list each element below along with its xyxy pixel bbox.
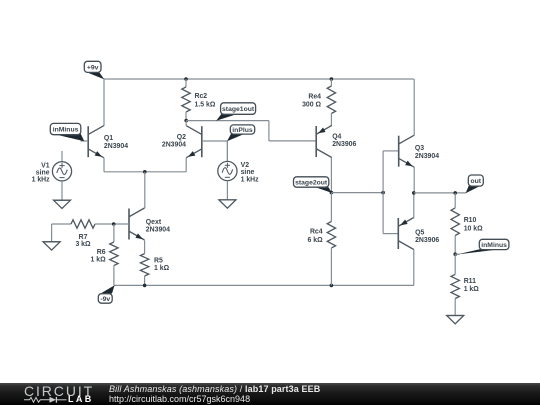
footer attribution text xyxy=(109,385,320,395)
flag inPlus xyxy=(227,125,255,141)
svg-text:Q2: Q2 xyxy=(177,134,186,141)
transistor Q1 xyxy=(88,126,104,158)
svg-text:stage2out: stage2out xyxy=(295,180,328,187)
resistor R6 xyxy=(110,224,118,285)
wire Q1 collector riser xyxy=(103,79,105,126)
footer bar xyxy=(0,383,540,405)
wire inMinus stub xyxy=(455,253,459,255)
resistor R11 xyxy=(451,254,459,315)
svg-text:1 kΩ: 1 kΩ xyxy=(154,265,170,272)
wire Q3 emitter drop xyxy=(413,167,415,193)
svg-text:6 kΩ: 6 kΩ xyxy=(307,237,323,244)
node R10/R11 junction xyxy=(453,252,457,256)
wire Q2 collector lead xyxy=(185,121,187,127)
wire Q5 emitter riser xyxy=(413,193,415,218)
svg-text:inMinus: inMinus xyxy=(481,242,507,249)
svg-text:2N3904: 2N3904 xyxy=(104,143,128,150)
CircuitLab logo xyxy=(24,385,94,397)
resistor R10 xyxy=(451,193,459,254)
label Q5 xyxy=(415,230,439,245)
flag stage2out xyxy=(294,177,332,193)
wire Q5 collector drop xyxy=(413,250,415,286)
label Re4 value xyxy=(302,93,321,108)
svg-text:inPlus: inPlus xyxy=(232,127,253,134)
ground below V1 xyxy=(54,200,71,208)
svg-text:300 Ω: 300 Ω xyxy=(302,102,321,109)
svg-text:Rc4: Rc4 xyxy=(310,229,323,236)
voltage source V2 xyxy=(218,141,237,200)
label Q1 xyxy=(104,135,128,150)
node emitter tail junction xyxy=(143,170,147,174)
label Rc2 value xyxy=(195,93,216,109)
wire Q1 emitter to tail xyxy=(104,158,145,172)
ground below R11 xyxy=(447,316,464,324)
svg-text:Q1: Q1 xyxy=(104,135,113,142)
svg-text:Q4: Q4 xyxy=(332,134,341,141)
logo wire glyph xyxy=(23,395,69,405)
svg-text:2N3906: 2N3906 xyxy=(415,237,439,244)
flag +9v xyxy=(84,61,104,79)
svg-text:1.5 kΩ: 1.5 kΩ xyxy=(195,101,216,108)
wire Q4 collector to stage2out xyxy=(330,158,332,193)
wire stage2out to output bases xyxy=(331,192,383,194)
node Rc4/rail junction xyxy=(330,284,334,288)
wire R7 left drop xyxy=(51,224,53,242)
svg-text:R6: R6 xyxy=(97,249,106,256)
transistor Qext xyxy=(129,208,145,240)
resistor Re4 xyxy=(327,79,335,126)
svg-text:R5: R5 xyxy=(154,258,163,265)
label R7 value xyxy=(75,234,91,248)
svg-text:+9v: +9v xyxy=(87,64,99,71)
resistor R5 xyxy=(140,240,148,285)
node Rc2/Q2-collector/stage1out junction xyxy=(184,119,188,123)
node R5/rail junction xyxy=(143,284,147,288)
svg-text:R10: R10 xyxy=(464,217,477,224)
node top-rail/Re4 junction xyxy=(330,77,334,81)
flag inMinus (input) xyxy=(50,123,84,141)
label Rc4 value xyxy=(307,229,323,244)
svg-text:2N3904: 2N3904 xyxy=(415,153,439,160)
flag -9v xyxy=(98,285,114,303)
label Q4 xyxy=(332,134,356,149)
resistor Rc4 xyxy=(327,193,335,286)
svg-text:1 kHz: 1 kHz xyxy=(32,176,51,183)
voltage source V1 xyxy=(52,151,71,200)
svg-text:Re4: Re4 xyxy=(308,93,321,100)
svg-text:3 kΩ: 3 kΩ xyxy=(75,241,91,248)
wire Q2 base to inPlus corner xyxy=(202,141,228,161)
svg-text:inMinus: inMinus xyxy=(53,127,79,134)
transistor Q4 xyxy=(316,126,332,158)
label R10 value xyxy=(464,217,483,233)
wire Q2 emitter to tail xyxy=(145,158,186,172)
svg-text:V2: V2 xyxy=(241,162,250,169)
flag stage1out xyxy=(216,103,255,121)
wire out run xyxy=(414,192,466,194)
transistor Q2 xyxy=(186,126,202,158)
svg-text:Q5: Q5 xyxy=(415,230,424,237)
flag inMinus (feedback) xyxy=(457,239,509,254)
label Q3 xyxy=(415,145,439,160)
label R5 value xyxy=(154,258,170,273)
wire stage1out run xyxy=(186,121,316,141)
node R10 tap junction xyxy=(453,191,457,195)
wire Q3/Q5 base line xyxy=(383,151,399,234)
svg-text:sine: sine xyxy=(241,169,255,176)
label R6 value xyxy=(90,249,106,264)
wire Q1 base stub xyxy=(81,140,89,142)
svg-text:Q3: Q3 xyxy=(415,145,424,152)
svg-text:Rc2: Rc2 xyxy=(195,93,208,100)
node Qext base junction xyxy=(112,222,116,226)
label V2 xyxy=(241,162,260,184)
transistor Q5 xyxy=(398,218,414,250)
wire tail to Qext collector xyxy=(144,172,146,208)
resistor Rc2 xyxy=(182,79,190,121)
svg-text:Qext: Qext xyxy=(146,219,162,226)
svg-text:2N3904: 2N3904 xyxy=(162,142,186,149)
svg-text:-9v: -9v xyxy=(100,296,110,303)
svg-text:V1: V1 xyxy=(41,162,50,169)
node emitters/out junction xyxy=(412,191,416,195)
label Q2 xyxy=(162,134,186,149)
node top-rail/Rc2 junction xyxy=(184,77,188,81)
svg-text:stage1out: stage1out xyxy=(222,106,255,113)
resistor R7 xyxy=(52,220,129,228)
label V1 xyxy=(32,162,51,183)
node base-line junction xyxy=(381,191,385,195)
wire -9v bottom rail xyxy=(114,284,414,286)
svg-text:2N3906: 2N3906 xyxy=(332,141,356,148)
svg-text:10 kΩ: 10 kΩ xyxy=(464,226,483,233)
svg-text:2N3904: 2N3904 xyxy=(146,226,170,233)
svg-text:R11: R11 xyxy=(464,278,476,285)
svg-text:1 kΩ: 1 kΩ xyxy=(464,286,480,293)
label R11 value xyxy=(464,278,480,293)
wire Q3 collector riser xyxy=(413,79,415,135)
svg-text:1 kΩ: 1 kΩ xyxy=(90,257,106,264)
label Qext xyxy=(146,219,170,234)
svg-text:out: out xyxy=(471,178,482,185)
flag out xyxy=(466,175,484,193)
svg-text:1 kHz: 1 kHz xyxy=(241,177,260,184)
node stage2out junction xyxy=(330,191,334,195)
ground below R7 xyxy=(43,242,60,250)
transistor Q3 xyxy=(399,135,415,167)
ground below V2 xyxy=(219,200,236,208)
wire +9v top rail xyxy=(104,78,414,80)
